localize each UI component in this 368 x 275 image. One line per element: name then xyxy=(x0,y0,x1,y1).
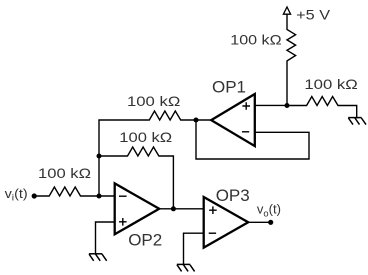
OP3 minus glyph xyxy=(209,232,216,234)
op-amp OP1 triangle (points left) xyxy=(211,94,255,146)
node D (OP1 +input) xyxy=(285,103,290,108)
OP1 plus glyph xyxy=(242,102,250,110)
wire OP2 output to OP3 +input xyxy=(159,208,204,210)
wire OP1 +input xyxy=(255,104,287,106)
OP1 minus glyph xyxy=(242,131,249,133)
svg-text:100 kΩ: 100 kΩ xyxy=(230,31,281,47)
svg-text:100 kΩ: 100 kΩ xyxy=(38,165,91,181)
wire OP3 output xyxy=(248,221,271,223)
wire OP3 -input to ground xyxy=(184,233,204,264)
svg-text:100 kΩ: 100 kΩ xyxy=(304,76,357,92)
ground G3 (OP3 -input) xyxy=(177,264,195,271)
svg-text:100 kΩ: 100 kΩ xyxy=(127,93,180,109)
ground G1 (right resistor) xyxy=(348,118,366,125)
op-amp OP3 triangle (points right) xyxy=(204,197,249,248)
svg-text:+5 V: +5 V xyxy=(296,6,331,22)
ground G2 (OP2 +input) xyxy=(89,254,107,261)
node C (OP1 output) xyxy=(194,118,199,123)
svg-text:vo(t): vo(t) xyxy=(257,202,281,220)
OP2 minus glyph xyxy=(119,195,127,197)
wire left vertical up to top feedback resistor R_f1 xyxy=(99,111,211,196)
node B xyxy=(97,154,102,159)
node A xyxy=(97,194,102,199)
svg-text:vi(t): vi(t) xyxy=(5,186,28,204)
OP3 plus glyph xyxy=(209,206,217,214)
svg-text:OP2: OP2 xyxy=(128,231,162,250)
node: input terminal xyxy=(32,193,37,198)
svg-text:OP3: OP3 xyxy=(216,186,250,205)
node: output terminal xyxy=(268,220,273,225)
wire supply vertical with resistor R_s zigzag xyxy=(287,14,296,105)
resistor R_right run to ground xyxy=(287,97,357,118)
resistor R_f2 run with corner down to OP2 output xyxy=(99,147,173,209)
wire OP2 +input to ground xyxy=(96,222,115,254)
supply arrow +5V xyxy=(283,7,290,14)
svg-text:100 kΩ: 100 kΩ xyxy=(119,129,172,145)
op-amp OP2 triangle (points right) xyxy=(115,183,160,234)
node E (OP2 output) xyxy=(171,206,176,211)
OP2 plus glyph xyxy=(119,218,127,226)
svg-text:OP1: OP1 xyxy=(212,77,246,96)
wire input with resistor R_in zigzag xyxy=(34,187,115,196)
wire OP1 -input feedback loop xyxy=(196,120,309,159)
